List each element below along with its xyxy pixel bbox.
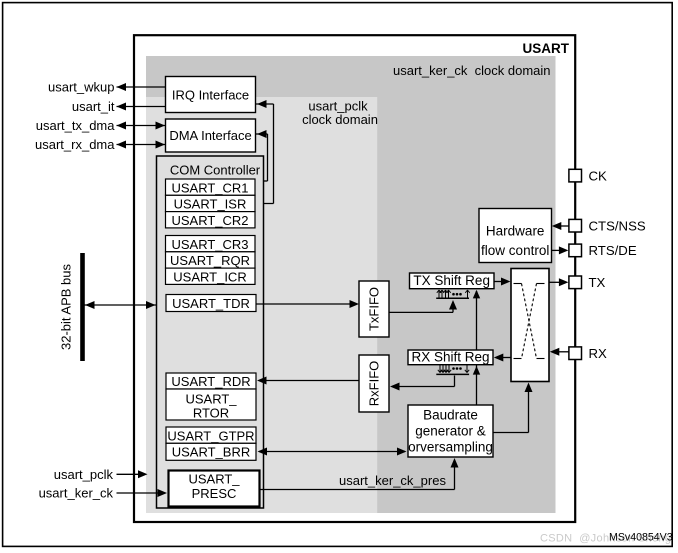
label usart_ker_ck_pres [339,473,446,488]
wire usart_it [117,103,166,111]
svg-text:USART_ICR: USART_ICR [173,270,246,285]
pin label RX [589,346,608,361]
svg-text:DMA Interface: DMA Interface [169,128,251,143]
pin label RTS/DE [589,243,637,258]
USART block outer box [134,35,575,522]
svg-text:orversampling: orversampling [408,440,493,455]
svg-text:RTOR: RTOR [193,406,229,421]
pin square RTS/DE [569,244,582,257]
label usart_ker_ck [39,486,114,501]
svg-text:RX Shift Reg: RX Shift Reg [411,350,489,365]
label usart_ker_ck clock domain [393,63,551,78]
watermark CSDN [540,533,671,545]
svg-text:usart_rx_dma: usart_rx_dma [35,137,115,152]
box RX Shift Reg [408,350,493,365]
wire usart_wkup [117,83,166,91]
register USART_CR3 [166,236,256,252]
box RxFIFO [359,355,389,412]
svg-text:RTS/DE: RTS/DE [589,243,637,258]
svg-text:USART_: USART_ [188,472,240,487]
wire TxFIFO to TX shift register [389,300,457,312]
register USART_PRESC [169,471,260,507]
pin label CTS/NSS [589,218,646,233]
svg-text:USART: USART [523,41,570,56]
wire usart_pclk input [117,470,148,478]
svg-text:usart_wkup: usart_wkup [48,80,114,95]
box Hardware flow control [479,209,552,263]
register USART_RDR [166,373,256,389]
box COM Controller [157,156,264,508]
usart_pclk clock domain shaded region [146,97,377,513]
svg-text:USART_TDR: USART_TDR [172,296,250,311]
label usart_pclk clock domain line2 [302,112,378,127]
svg-text:USART_CR1: USART_CR1 [171,180,248,195]
wire usart_rx_dma [117,141,166,149]
wire usart_ker_ck_pres PRESC to baudrate generator [260,458,459,490]
wire baudrate generator to pin crossbar [493,383,533,433]
svg-text:usart_pclk: usart_pclk [54,467,114,482]
svg-text:USART_RDR: USART_RDR [171,374,250,389]
register USART_TDR [166,295,256,312]
svg-text:CTS/NSS: CTS/NSS [589,218,646,233]
svg-text:USART_BRR: USART_BRR [172,445,251,460]
svg-text:usart_ker_ck: usart_ker_ck [39,486,114,501]
register USART_RQR [166,252,256,268]
pin label TX [589,275,606,290]
svg-text:USART_ISR: USART_ISR [174,197,247,212]
svg-text:USART_: USART_ [185,392,237,407]
label 32-bit APB bus [59,264,74,350]
wire COM controller to IRQ Interface [256,100,274,204]
wire CTS/NSS pin to hardware flow control [552,222,569,230]
pin square RX [569,347,582,360]
wire USART_TDR to TxFIFO [256,300,359,308]
label usart_tx_dma [36,118,116,133]
svg-text:PRESC: PRESC [192,486,237,501]
32-bit APB bus line [80,253,85,361]
svg-text:CK: CK [589,168,608,183]
svg-text:TX: TX [589,275,606,290]
label COM Controller [170,162,261,177]
svg-text:RxFIFO: RxFIFO [367,361,382,407]
svg-text:usart_ker_ck_pres: usart_ker_ck_pres [339,473,446,488]
register USART_ISR [166,195,256,211]
label usart_pclk clock domain line1 [308,99,368,114]
wire RxFIFO to USART_RDR [257,377,359,385]
wire crossbar to RX shift reg [494,354,511,362]
register USART_RTOR [166,389,256,421]
figure number MSv40854V3 [609,532,673,544]
label usart_wkup [48,80,114,95]
wire usart_ker_ck input [117,489,168,497]
svg-text:USART_RQR: USART_RQR [170,253,250,268]
RX shift reg FIFO output arrows [436,365,469,374]
svg-text:Baudrate: Baudrate [423,408,478,423]
label usart_rx_dma [35,137,115,152]
wire COM controller to DMA Interface [256,130,268,181]
wire USART_BRR to baudrate generator (bidirectional) [258,448,407,456]
register USART_GTPR [166,427,256,443]
label usart_pclk [54,467,114,482]
wire RX shift register to RxFIFO [390,376,455,391]
svg-text:TxFIFO: TxFIFO [367,287,382,331]
register USART_ICR [166,268,256,284]
usart_ker_ck clock domain shaded region [146,56,556,513]
svg-text:usart_ker_ck clock domain: usart_ker_ck clock domain [393,63,551,78]
title USART [523,41,570,56]
wire APB bus to COM controller (bidirectional) [85,301,157,309]
pin square CTS/NSS [569,219,582,232]
TX shift reg FIFO input arrows [436,290,470,298]
svg-text:COM Controller: COM Controller [170,162,261,177]
svg-text:USART_CR2: USART_CR2 [171,213,248,228]
box IRQ Interface [166,77,256,113]
label usart_it [72,99,115,114]
box Baudrate generator and oversampling [408,405,493,457]
wire baudrate clock to shift registers [473,290,480,405]
wire TX shift reg to crossbar [494,278,511,286]
pin swap crossbar [511,269,549,382]
svg-text:Hardware: Hardware [486,224,545,239]
wire usart_tx_dma [117,122,166,130]
wire RX pin to crossbar [550,348,569,356]
svg-text:MSv40854V3: MSv40854V3 [609,532,673,544]
register USART_CR2 [166,212,256,228]
register USART_CR1 [166,179,256,195]
svg-text:32-bit APB bus: 32-bit APB bus [59,264,74,350]
svg-text:generator &: generator & [415,424,486,439]
box TxFIFO [359,281,389,337]
pin square CK [569,169,582,182]
register USART_BRR [166,443,256,460]
svg-text:USART_CR3: USART_CR3 [171,237,248,252]
svg-text:TX Shift Reg: TX Shift Reg [413,273,490,288]
svg-text:clock domain: clock domain [302,112,378,127]
svg-text:usart_tx_dma: usart_tx_dma [36,118,116,133]
svg-text:usart_it: usart_it [72,99,115,114]
box TX Shift Reg [410,273,495,289]
svg-text:flow control: flow control [481,243,549,258]
svg-text:IRQ Interface: IRQ Interface [172,87,249,102]
wire hardware flow control to RTS/DE pin [552,246,569,254]
svg-text:USART_GTPR: USART_GTPR [167,428,254,443]
wire crossbar to TX pin [549,278,568,286]
box DMA Interface [166,119,256,152]
svg-text:RX: RX [589,346,608,361]
pin square TX [569,276,582,289]
pin label CK [589,168,608,183]
